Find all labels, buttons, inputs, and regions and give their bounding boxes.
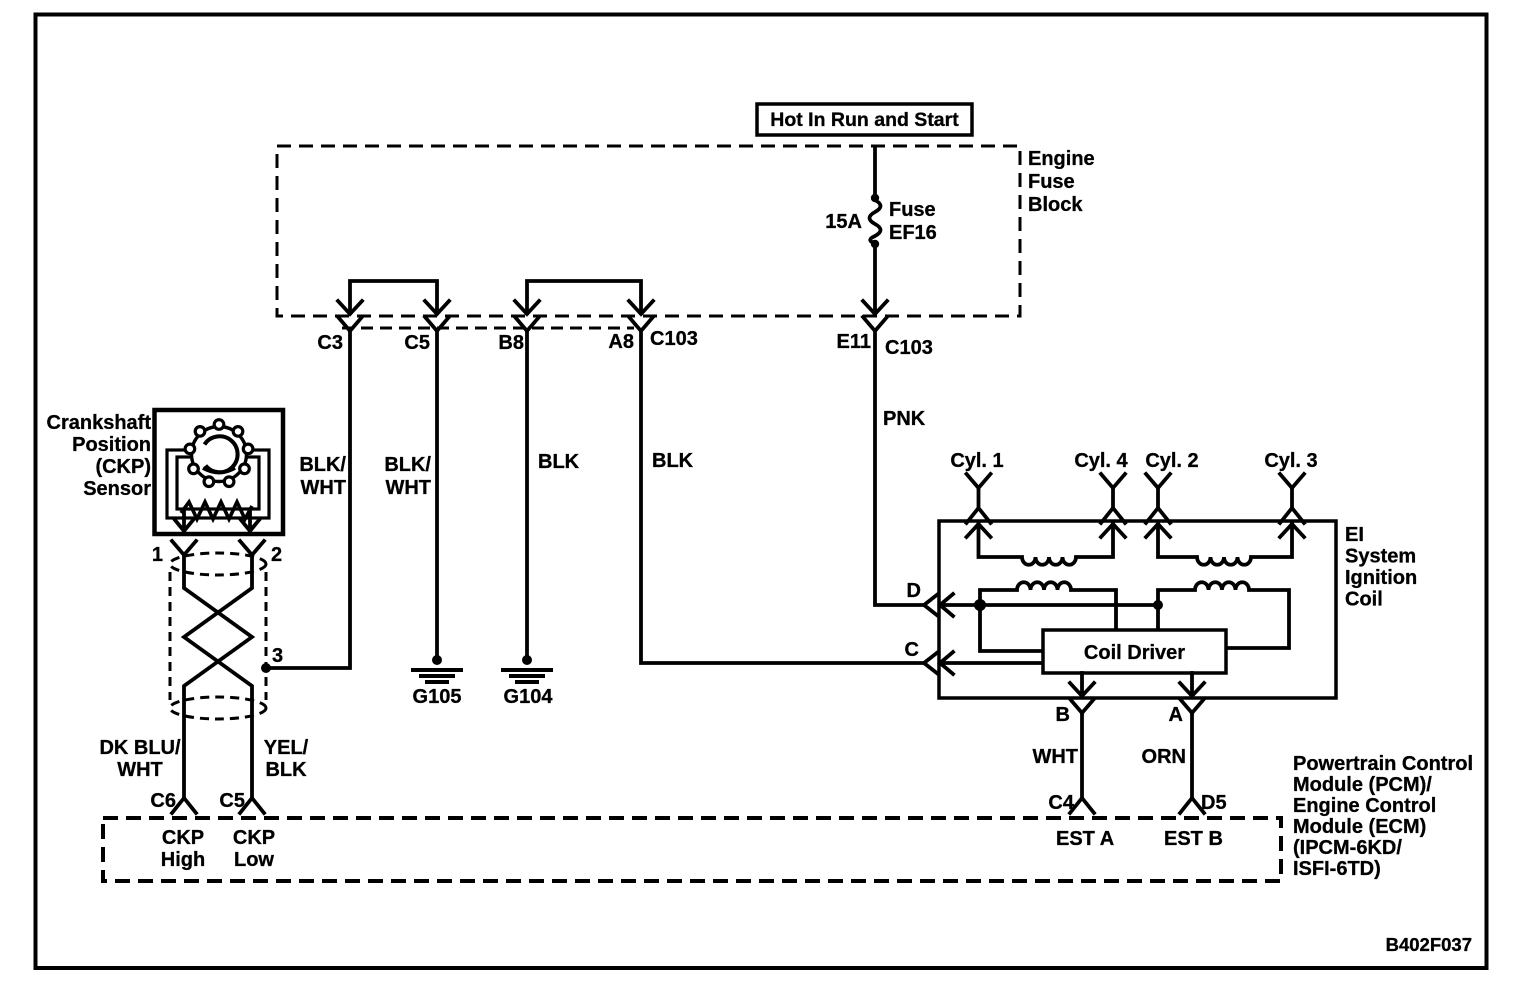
svg-text:DK BLU/: DK BLU/ [99,737,181,759]
connector pin B [1056,699,1094,726]
wire BLK/WHT: C3 to shield drain node 3 [266,330,350,668]
coil driver [1043,630,1226,673]
svg-text:C6: C6 [150,790,176,812]
svg-text:WHT: WHT [117,759,163,781]
svg-text:Block: Block [1028,194,1083,216]
primary winding 1 [980,582,1116,630]
svg-text:BLK: BLK [538,451,580,473]
svg-text:D5: D5 [1201,792,1227,814]
svg-text:(CKP): (CKP) [95,456,151,478]
twisted pair wire from pin 1 [184,554,252,798]
connector pin A [1169,699,1204,726]
jumper wire B8 to A8 inside fuse block [515,281,653,314]
svg-text:Module (ECM): Module (ECM) [1293,816,1426,838]
svg-text:EI: EI [1345,524,1364,546]
svg-text:Engine: Engine [1028,148,1095,170]
svg-text:WHT: WHT [385,477,431,499]
connector D5 [1180,792,1227,814]
PCM/ECM (dashed box) [103,818,1281,881]
PCM / ECM label [1293,753,1473,880]
svg-text:C103: C103 [885,337,933,359]
wire: pin D bus to primaries [940,603,1158,607]
svg-text:Position: Position [72,434,151,456]
svg-text:WHT: WHT [300,477,346,499]
svg-text:Cyl. 2: Cyl. 2 [1145,450,1198,472]
svg-text:B8: B8 [498,332,524,354]
connector pin C [905,639,1043,674]
spark plug connector Cyl. 4 [1074,450,1128,523]
svg-text:A8: A8 [608,331,634,353]
fuse EF16 15A [870,194,881,248]
EI system ignition coil label [1345,524,1417,611]
svg-text:Ignition: Ignition [1345,567,1417,589]
primary winding 1 lower leg to coil driver [980,605,1043,651]
svg-text:2: 2 [271,544,282,566]
connector C5 (PCM) [219,790,264,813]
svg-text:Cyl. 1: Cyl. 1 [950,450,1003,472]
wire ORN: pin A to D5 [1190,712,1194,798]
svg-text:WHT: WHT [1032,746,1078,768]
wire BLK: B8 to ground G104 [525,330,529,657]
wire BLK: A8 to ignition coil pin C [641,330,924,663]
svg-text:Coil: Coil [1345,589,1383,611]
spark plug connector Cyl. 2 [1145,450,1198,523]
svg-text:Sensor: Sensor [83,478,151,500]
ground G105 [411,655,463,708]
fuse name label Fuse EF16 [889,199,937,244]
junction dot (primary 1) [974,599,986,611]
ground G104 [501,655,553,708]
svg-text:Fuse: Fuse [889,199,936,221]
wire BLK/WHT: C5 to ground G105 [435,330,439,657]
svg-text:C5: C5 [404,332,430,354]
svg-text:EF16: EF16 [889,222,937,244]
svg-text:A: A [1169,704,1183,726]
crankshaft position (CKP) sensor [155,410,284,534]
svg-text:C4: C4 [1048,792,1074,814]
wire label BLK/WHT (C3) [299,454,346,499]
svg-text:BLK/: BLK/ [299,454,346,476]
svg-text:ORN: ORN [1142,746,1186,768]
connector A8 C103 [608,317,697,353]
junction dot (primary 2) [1153,600,1163,610]
svg-text:CKP: CKP [162,827,204,849]
svg-text:Engine Control: Engine Control [1293,795,1436,817]
connector C6 [150,790,196,813]
connector B8 [498,317,539,354]
secondary winding Cyl.2 - Cyl.3 [1146,524,1304,565]
wire PNK: E11 to ignition coil pin D [875,330,924,605]
engine fuse block label [1028,148,1095,216]
svg-text:G105: G105 [413,686,462,708]
svg-text:High: High [161,849,205,871]
primary winding 2 [1158,582,1289,648]
svg-text:C3: C3 [317,332,343,354]
svg-text:C5: C5 [219,790,245,812]
spark plug connector Cyl. 3 [1264,450,1317,523]
wire WHT: pin B to C4 [1080,712,1084,798]
svg-text:EST A: EST A [1056,828,1114,850]
svg-text:Powertrain Control: Powertrain Control [1293,753,1473,775]
svg-text:Cyl. 3: Cyl. 3 [1264,450,1317,472]
in-line connector C103 (dashed) [342,327,634,330]
svg-text:CKP: CKP [233,827,275,849]
cable shield (dashed) [170,553,266,719]
svg-text:YEL/: YEL/ [264,737,309,759]
svg-text:(IPCM-6KD/: (IPCM-6KD/ [1293,837,1402,859]
svg-text:BLK: BLK [652,450,694,472]
svg-text:PNK: PNK [883,408,926,430]
connector E11 C103 [837,317,933,359]
svg-text:1: 1 [152,544,163,566]
connector C3 [317,317,362,354]
wire: hot feed to fuse EF16 [873,147,877,195]
svg-text:BLK: BLK [265,759,307,781]
PCM input label CKP Low [233,827,275,871]
svg-text:E11: E11 [837,331,871,353]
svg-text:G104: G104 [504,686,554,708]
wire: fuse to connector E11 (arrow) [863,247,887,314]
svg-text:Low: Low [234,849,274,871]
engine fuse block (dashed box) [277,146,1020,316]
twisted pair wire from pin 2 [184,554,252,798]
connector pin 1 [152,541,196,566]
svg-text:Fuse: Fuse [1028,171,1075,193]
svg-text:15A: 15A [825,211,862,233]
connector pin 2 [240,541,282,566]
svg-text:BLK/: BLK/ [384,454,431,476]
connector pin D [907,580,953,616]
wire: coil driver to pin A (arrow) [1180,673,1204,696]
svg-text:System: System [1345,546,1416,568]
svg-text:3: 3 [272,645,283,667]
svg-text:B402F037: B402F037 [1386,934,1472,955]
label box "Hot In Run and Start" [757,104,972,135]
connector C5 (fuse block) [404,317,449,354]
svg-text:Hot In Run and Start: Hot In Run and Start [770,109,959,131]
svg-text:D: D [907,580,921,602]
svg-text:Crankshaft: Crankshaft [47,412,152,434]
PCM input label CKP High [161,827,205,871]
svg-text:Coil Driver: Coil Driver [1084,642,1185,664]
wire label YEL/BLK [264,737,309,781]
spark plug connector Cyl. 1 [950,450,1003,523]
svg-text:Module (PCM)/: Module (PCM)/ [1293,774,1432,796]
svg-text:ISFI-6TD): ISFI-6TD) [1293,858,1381,880]
svg-text:C103: C103 [650,328,698,350]
svg-text:B: B [1056,704,1070,726]
secondary winding Cyl.1 - Cyl.4 [967,524,1126,565]
connector C4 [1048,792,1094,814]
EI system ignition coil box [939,521,1336,698]
wire label DK BLU/WHT [99,737,181,781]
wire: coil driver to pin B (arrow) [1070,673,1094,696]
svg-text:Cyl. 4: Cyl. 4 [1074,450,1128,472]
svg-text:EST B: EST B [1164,828,1223,850]
svg-text:C: C [905,639,919,661]
wire label BLK/WHT (C5) [384,454,431,499]
jumper wire C3 to C5 inside fuse block [338,281,449,314]
CKP sensor label [47,412,152,500]
node 3 (shield drain junction) [261,645,283,673]
